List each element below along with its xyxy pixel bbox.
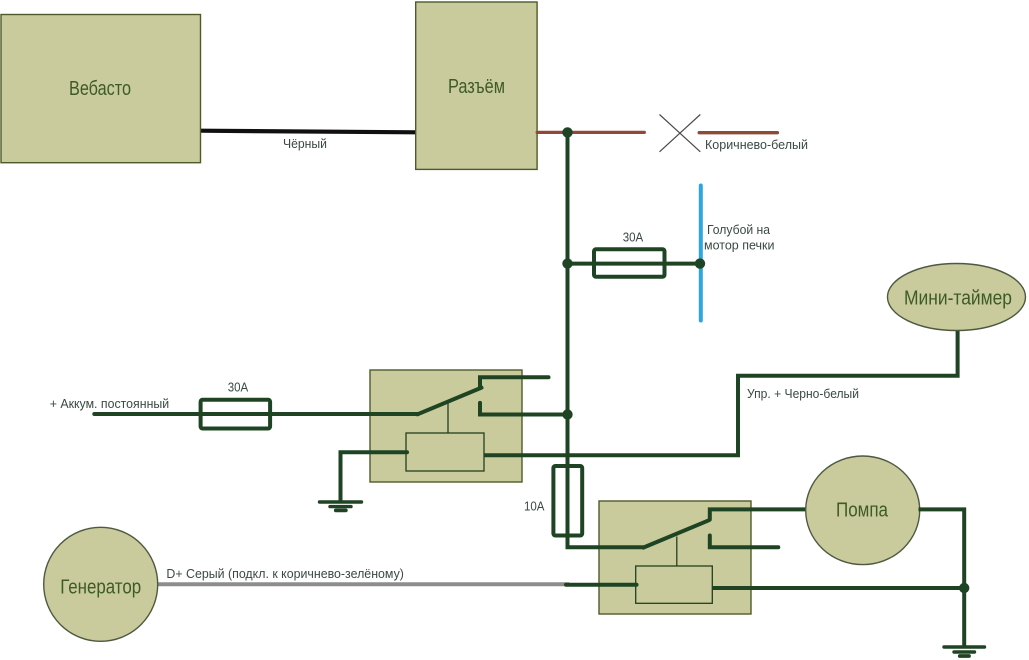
svg-text:10A: 10A (524, 498, 545, 513)
svg-text:мотор печки: мотор печки (704, 238, 775, 253)
node junction relay1 contact / main vertical (562, 409, 572, 419)
circle Генератор (44, 527, 158, 641)
fuse 30A (top) (594, 249, 665, 277)
relay K2 top contact to Помпа (710, 509, 806, 519)
ellipse Мини-таймер (888, 264, 1026, 331)
relay K2 armature link (676, 537, 678, 567)
wire D+ grey from Генератор (158, 582, 569, 586)
fuse 10A (vertical) (553, 466, 582, 536)
svg-text:Голубой на: Голубой на (707, 222, 771, 237)
svg-text:Вебасто: Вебасто (69, 78, 131, 100)
svg-text:D+ Серый (подкл. к коричнево-з: D+ Серый (подкл. к коричнево-зелёному) (166, 566, 404, 581)
wire main vertical from Разъём junction down to relay2 common (568, 132, 644, 547)
relay K1 box (370, 370, 522, 482)
node junction at blue wire (695, 258, 705, 268)
svg-text:+ Аккум. постоянный: + Аккум. постоянный (50, 396, 170, 411)
block Вебасто (1, 15, 201, 163)
svg-text:Помпа: Помпа (836, 500, 889, 522)
svg-text:Генератор: Генератор (60, 576, 141, 598)
fuse 30A (left) (201, 400, 271, 429)
wire fuse30A-top horizontal to blue (568, 262, 701, 266)
wire battery feed to relay1 common (94, 412, 418, 416)
wire coil1 right to mini-timer (484, 330, 958, 455)
relay K2 blade (643, 520, 709, 547)
wire black Вебасто to Разъём (200, 131, 416, 133)
svg-text:30A: 30A (228, 380, 249, 395)
relay K2 lower contact stub (710, 536, 779, 548)
X cut mark (660, 115, 701, 152)
wire blue to heater motor (699, 186, 703, 321)
svg-text:30A: 30A (623, 230, 644, 245)
svg-text:Разъём: Разъём (448, 76, 505, 98)
svg-text:Коричнево-белый: Коричнево-белый (705, 137, 808, 152)
relay K1 blade (418, 388, 482, 415)
wire coil1 left to ground (341, 452, 408, 500)
node junction coil2/ground wire (959, 583, 969, 593)
wire coil2 right to ground junction (712, 586, 964, 590)
relay K1 top contact (480, 377, 549, 387)
node junction on brown wire (562, 127, 572, 137)
relay K1 armature link (447, 403, 449, 433)
wire brown right segment (699, 131, 777, 134)
wire brown left segment (537, 131, 644, 134)
relay K1 coil (406, 433, 484, 471)
label Голубой на мотор печки (704, 222, 775, 252)
wire coil2 left green (566, 583, 637, 587)
svg-text:Мини-таймер: Мини-таймер (904, 288, 1012, 310)
relay K2 coil (636, 566, 713, 603)
relay K2 box (599, 501, 751, 614)
ground (relay K1 coil) (320, 502, 362, 510)
node junction left of fuse (562, 258, 572, 268)
svg-text:Чёрный: Чёрный (283, 136, 327, 151)
relay K1 lower contact to main vertical (480, 403, 568, 415)
wire Помпа right down to ground (919, 509, 965, 646)
block Разъём (416, 2, 537, 169)
svg-text:Упр. + Черно-белый: Упр. + Черно-белый (747, 386, 859, 401)
circle Помпа (806, 456, 920, 565)
ground (Помпа circuit) (944, 647, 985, 656)
